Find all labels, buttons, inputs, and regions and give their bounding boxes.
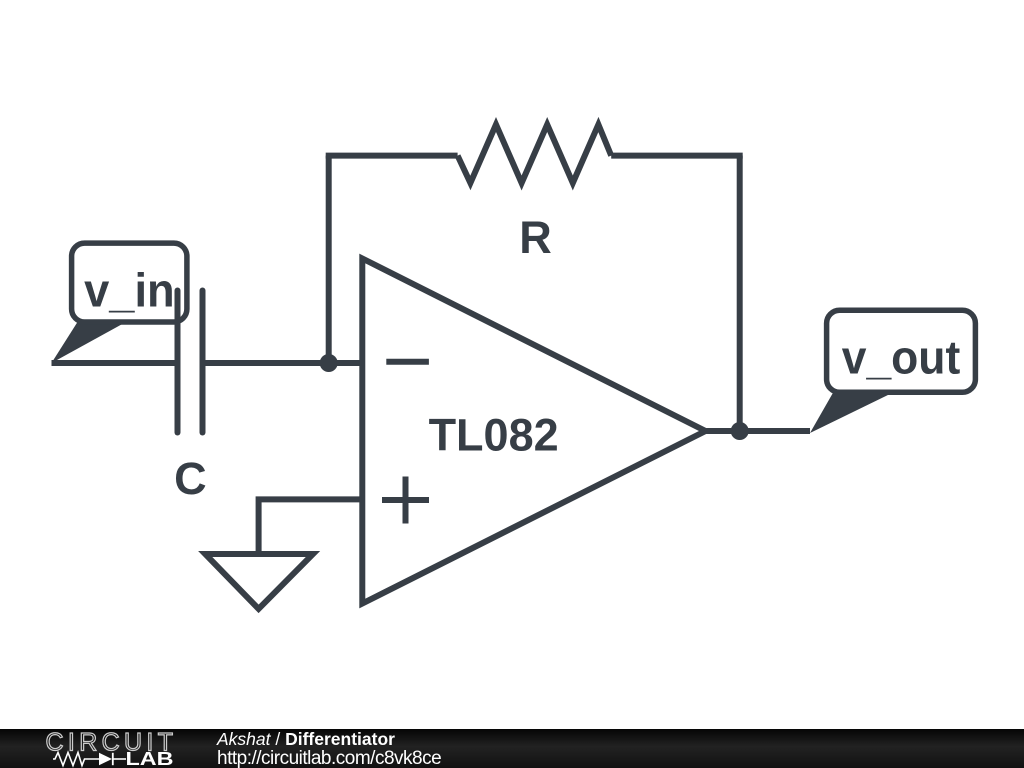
footer bar (0, 729, 1024, 768)
svg-text:TL082: TL082 (429, 410, 559, 461)
svg-text:LAB: LAB (126, 748, 174, 768)
wire input right (203, 360, 363, 366)
op-amp U1 non-inverting input plus sign (382, 497, 429, 503)
flag v_in box (72, 243, 187, 322)
svg-text:C: C (174, 453, 207, 504)
svg-text:v_out: v_out (842, 331, 961, 384)
wire output (706, 428, 811, 434)
flag v_in tail (52, 322, 127, 363)
flag v_out box (827, 310, 976, 392)
capacitor C right plate (200, 291, 206, 433)
wire feedback top right (611, 153, 743, 159)
wire input left (52, 360, 178, 366)
svg-text:Akshat / Differentiator: Akshat / Differentiator (216, 729, 395, 749)
node inverting input junction (320, 354, 338, 372)
wire feedback right vertical (737, 156, 743, 431)
flag v_out tail (810, 392, 893, 433)
wire non-inverting input to ground (259, 499, 363, 554)
op-amp U1 inverting input minus sign (386, 359, 429, 365)
node output junction (731, 422, 749, 440)
wire feedback left vertical (326, 156, 332, 363)
resistor R (458, 125, 612, 184)
capacitor C left plate (175, 291, 181, 433)
svg-text:http://circuitlab.com/c8vk8ce: http://circuitlab.com/c8vk8ce (217, 748, 441, 768)
CircuitLab logo resistor squiggle and diode (53, 753, 99, 766)
op-amp U1 body (362, 259, 705, 604)
wire feedback top left (326, 153, 458, 159)
svg-text:v_in: v_in (84, 263, 175, 316)
ground (205, 554, 313, 609)
svg-text:R: R (519, 212, 552, 263)
